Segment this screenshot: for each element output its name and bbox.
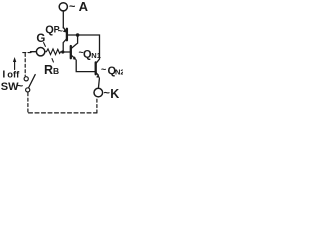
svg-text:N1: N1 bbox=[91, 51, 101, 60]
current arrow Ioff bbox=[13, 57, 16, 70]
node junction QN1 base bbox=[61, 50, 64, 53]
svg-text:~: ~ bbox=[17, 80, 24, 92]
svg-text:~: ~ bbox=[69, 1, 76, 13]
wire dashed right to K bbox=[96, 99, 98, 113]
svg-text:K: K bbox=[110, 87, 119, 101]
transistor QN1 bbox=[71, 37, 95, 72]
svg-text:R: R bbox=[44, 63, 53, 77]
svg-text:B: B bbox=[53, 66, 59, 76]
wire RB label tick bbox=[52, 59, 53, 62]
wire anode lead bbox=[62, 11, 64, 28]
transistor QP bbox=[63, 27, 67, 52]
wire dashed switch to bottom bbox=[27, 93, 29, 113]
wire dashed gate loop top bbox=[23, 52, 32, 54]
resistor RB bbox=[45, 49, 62, 55]
terminal G bbox=[36, 48, 44, 56]
svg-text:I: I bbox=[2, 68, 5, 80]
label G bbox=[36, 33, 45, 45]
wire QN1 base bbox=[63, 51, 70, 53]
transistor QN2 bbox=[96, 62, 100, 88]
svg-text:N2: N2 bbox=[115, 68, 123, 77]
label Ioff bbox=[2, 68, 20, 80]
node junction QP base / QN1 collector bbox=[76, 33, 80, 37]
label A bbox=[69, 0, 89, 14]
label QN2 bbox=[101, 65, 125, 77]
terminal A bbox=[59, 3, 67, 11]
label K bbox=[104, 87, 120, 101]
wire dashed bottom bbox=[29, 112, 97, 114]
wire G label tick bbox=[44, 43, 46, 47]
wire G lead bbox=[31, 51, 37, 53]
wire dashed gate loop left bbox=[24, 54, 26, 77]
svg-text:off: off bbox=[7, 69, 20, 80]
label QN1 bbox=[79, 48, 101, 61]
svg-text:~: ~ bbox=[58, 26, 63, 36]
label RB bbox=[44, 63, 59, 77]
svg-text:~: ~ bbox=[101, 65, 106, 75]
terminal K bbox=[94, 88, 103, 97]
wire QP base to QN2 collector bbox=[68, 35, 100, 63]
label QP bbox=[45, 24, 63, 36]
switch SW bbox=[24, 75, 35, 92]
label SW bbox=[1, 80, 24, 93]
svg-text:A: A bbox=[79, 0, 89, 14]
